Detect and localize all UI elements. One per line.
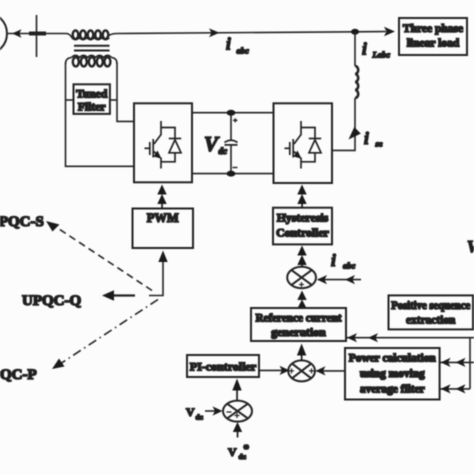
wire: dc bus top xyxy=(192,112,274,114)
svg-text:PWM: PWM xyxy=(147,211,179,225)
positive sequence extraction box xyxy=(389,295,474,329)
svg-text:*: * xyxy=(244,443,250,455)
wire: PI output to S2 xyxy=(259,369,288,371)
wire: line A into reference box xyxy=(346,337,474,339)
double arrow PWM to VSC1 xyxy=(157,185,166,210)
svg-text:linear load: linear load xyxy=(407,38,460,50)
svg-text:i: i xyxy=(362,40,367,59)
arrow into load box xyxy=(384,27,395,36)
hysteresis controller box xyxy=(273,208,332,245)
wire: vertical at right xyxy=(469,338,471,389)
svg-text:Power calculation: Power calculation xyxy=(349,353,437,365)
wire: power box to S2 xyxy=(317,370,346,372)
label i Labc xyxy=(362,40,390,60)
svg-text:Positive sequence: Positive sequence xyxy=(391,300,470,312)
wire: dc bus bottom xyxy=(192,173,274,175)
arrow up into PWM box xyxy=(158,251,167,263)
arrow on ac bus (iabc direction) xyxy=(209,28,220,37)
svg-text:V: V xyxy=(228,445,237,459)
wire: tuned filter left stub xyxy=(66,99,74,101)
arrowhead A1 xyxy=(347,333,357,342)
shunt interface inductor Lsh xyxy=(355,66,358,98)
wire: line B into power box xyxy=(440,361,474,363)
double arrow S1 to hysteresis xyxy=(297,246,306,268)
svg-text:UPQC-Q: UPQC-Q xyxy=(22,293,81,309)
label i abc on ac bus xyxy=(226,35,249,56)
wire: tuned filter right stub xyxy=(110,99,117,101)
label Reference current generation xyxy=(256,312,342,340)
svg-text:average filter: average filter xyxy=(360,384,425,396)
label i se xyxy=(364,129,383,149)
wire: iabc feedback into S1 xyxy=(318,279,361,281)
svg-text:UPQC-S: UPQC-S xyxy=(0,214,44,230)
svg-text:Tuned: Tuned xyxy=(76,88,108,101)
arrowhead power to S2 xyxy=(316,366,326,375)
transformer T1 core xyxy=(74,45,110,47)
breaker tick bold segment xyxy=(29,32,46,36)
label Hysteresis Controller xyxy=(276,211,329,240)
arrowhead UPQC-P xyxy=(52,359,65,370)
wire: secondary right leg down xyxy=(117,63,134,121)
svg-text:i: i xyxy=(331,251,336,270)
plus sign at S2 left xyxy=(289,368,294,373)
arrowhead PI to S2 xyxy=(280,366,290,375)
wire: ac bus from transformer to load junction xyxy=(117,32,355,34)
label Positive sequence extraction xyxy=(391,300,470,327)
wire: shunt branch lower with elbow into VSC2 xyxy=(332,98,355,150)
dc link capacitor C xyxy=(225,110,238,177)
wire: shunt branch upper xyxy=(354,32,356,66)
label Vdc reference xyxy=(228,443,250,461)
svg-text:Three phase: Three phase xyxy=(403,23,463,35)
svg-text:generation: generation xyxy=(271,325,326,339)
svg-text:i: i xyxy=(226,35,231,54)
shunt converter VSC2 box xyxy=(274,103,333,183)
svg-text:abc: abc xyxy=(237,46,250,56)
svg-text:Filter: Filter xyxy=(78,101,106,114)
svg-text:UPQC-P: UPQC-P xyxy=(0,367,37,383)
svg-text:V: V xyxy=(467,237,474,256)
mid arrowhead on iabc feedback xyxy=(345,275,355,284)
arrowhead UPQC-S xyxy=(46,221,60,232)
breaker tick vertical xyxy=(36,15,38,57)
svg-text:Labc: Labc xyxy=(372,50,391,60)
label Vdc measured xyxy=(186,405,204,422)
svg-text:se: se xyxy=(375,139,383,149)
reference current generation box xyxy=(251,308,346,341)
double arrow reference to S1 xyxy=(297,291,306,309)
summing junction S2 xyxy=(288,360,315,381)
wire: junction to load arrow xyxy=(355,31,386,33)
label Vdc xyxy=(204,132,227,156)
summing junction S1 xyxy=(287,267,316,288)
tuned filter box xyxy=(74,84,110,114)
arrowhead C1 xyxy=(441,384,451,393)
svg-text:Hysteresis: Hysteresis xyxy=(277,211,329,225)
svg-text:Reference current: Reference current xyxy=(256,312,342,325)
svg-text:extraction: extraction xyxy=(406,315,456,327)
svg-text:i: i xyxy=(364,129,369,148)
series converter VSC1 box xyxy=(134,103,192,182)
label i abc feedback xyxy=(331,251,356,271)
arrow ise direction on shunt branch xyxy=(349,127,361,140)
svg-text:dc: dc xyxy=(219,146,228,156)
arrowhead C2 xyxy=(456,384,466,393)
arrow Vdc ref into S3 xyxy=(233,422,242,438)
svg-text:V: V xyxy=(186,405,195,419)
minus sign inside S3 xyxy=(227,411,232,413)
arrow S3 to PI controller xyxy=(232,379,241,402)
arrowhead at S1 right xyxy=(317,275,327,284)
svg-text:abc: abc xyxy=(343,261,356,271)
plus sign inside S3 xyxy=(235,413,240,418)
svg-text:dc: dc xyxy=(196,413,204,422)
PWM box xyxy=(133,209,194,249)
label Three phase linear load xyxy=(403,23,463,50)
arrowhead B1 xyxy=(441,358,451,367)
dash-dot line to UPQC-P xyxy=(60,300,158,365)
label Tuned Filter xyxy=(76,88,108,114)
transformer T1 secondary winding xyxy=(66,55,118,66)
arrow Vdc into S3 xyxy=(205,406,223,415)
svg-text:PI-controller: PI-controller xyxy=(190,360,257,374)
arrowhead B2 xyxy=(456,358,466,367)
plus sign at S2 right xyxy=(309,368,314,373)
plus sign at S1 bottom xyxy=(299,282,304,287)
wire: secondary left leg down xyxy=(66,63,135,166)
wire: elbow below PWM xyxy=(149,262,163,296)
dashed line to UPQC-S xyxy=(53,225,152,291)
IGBT with diode inside VSC1 xyxy=(145,121,182,169)
PI controller box xyxy=(187,355,259,377)
wire: line C into power box xyxy=(440,388,470,390)
double arrow hysteresis to VSC2 xyxy=(297,185,306,209)
summing junction S3 xyxy=(223,401,252,422)
solid arrow to UPQC-Q xyxy=(102,290,135,300)
label Power calculation using moving average filter xyxy=(349,353,437,396)
wire: main ac bus xyxy=(6,33,66,35)
arrow toward source xyxy=(12,29,22,38)
arrow S2 to reference box xyxy=(297,344,306,362)
arrowhead A2 xyxy=(368,333,378,342)
IGBT with diode inside VSC2 xyxy=(285,121,322,169)
node: load junction dot xyxy=(351,29,359,35)
transformer T1 primary winding xyxy=(66,31,117,40)
svg-text:using moving: using moving xyxy=(360,368,425,380)
source generator G (circle cut by left edge) xyxy=(0,13,7,55)
svg-text:Controller: Controller xyxy=(276,226,329,240)
three phase linear load box xyxy=(399,18,467,55)
power calculation box xyxy=(345,348,440,400)
